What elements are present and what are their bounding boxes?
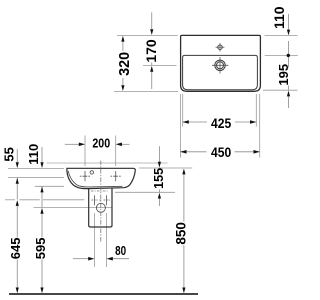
svg-text:850: 850 [174, 222, 189, 245]
svg-text:425: 425 [211, 115, 231, 131]
svg-text:320: 320 [116, 52, 133, 76]
svg-text:450: 450 [211, 144, 231, 160]
svg-text:195: 195 [276, 64, 291, 86]
svg-text:200: 200 [92, 136, 110, 151]
svg-text:155: 155 [152, 168, 166, 189]
svg-text:645: 645 [8, 238, 23, 260]
svg-text:170: 170 [143, 39, 159, 63]
svg-text:110: 110 [271, 6, 287, 29]
svg-text:80: 80 [115, 243, 126, 258]
svg-text:110: 110 [26, 144, 41, 165]
svg-text:595: 595 [33, 238, 48, 260]
svg-text:55: 55 [1, 147, 16, 161]
